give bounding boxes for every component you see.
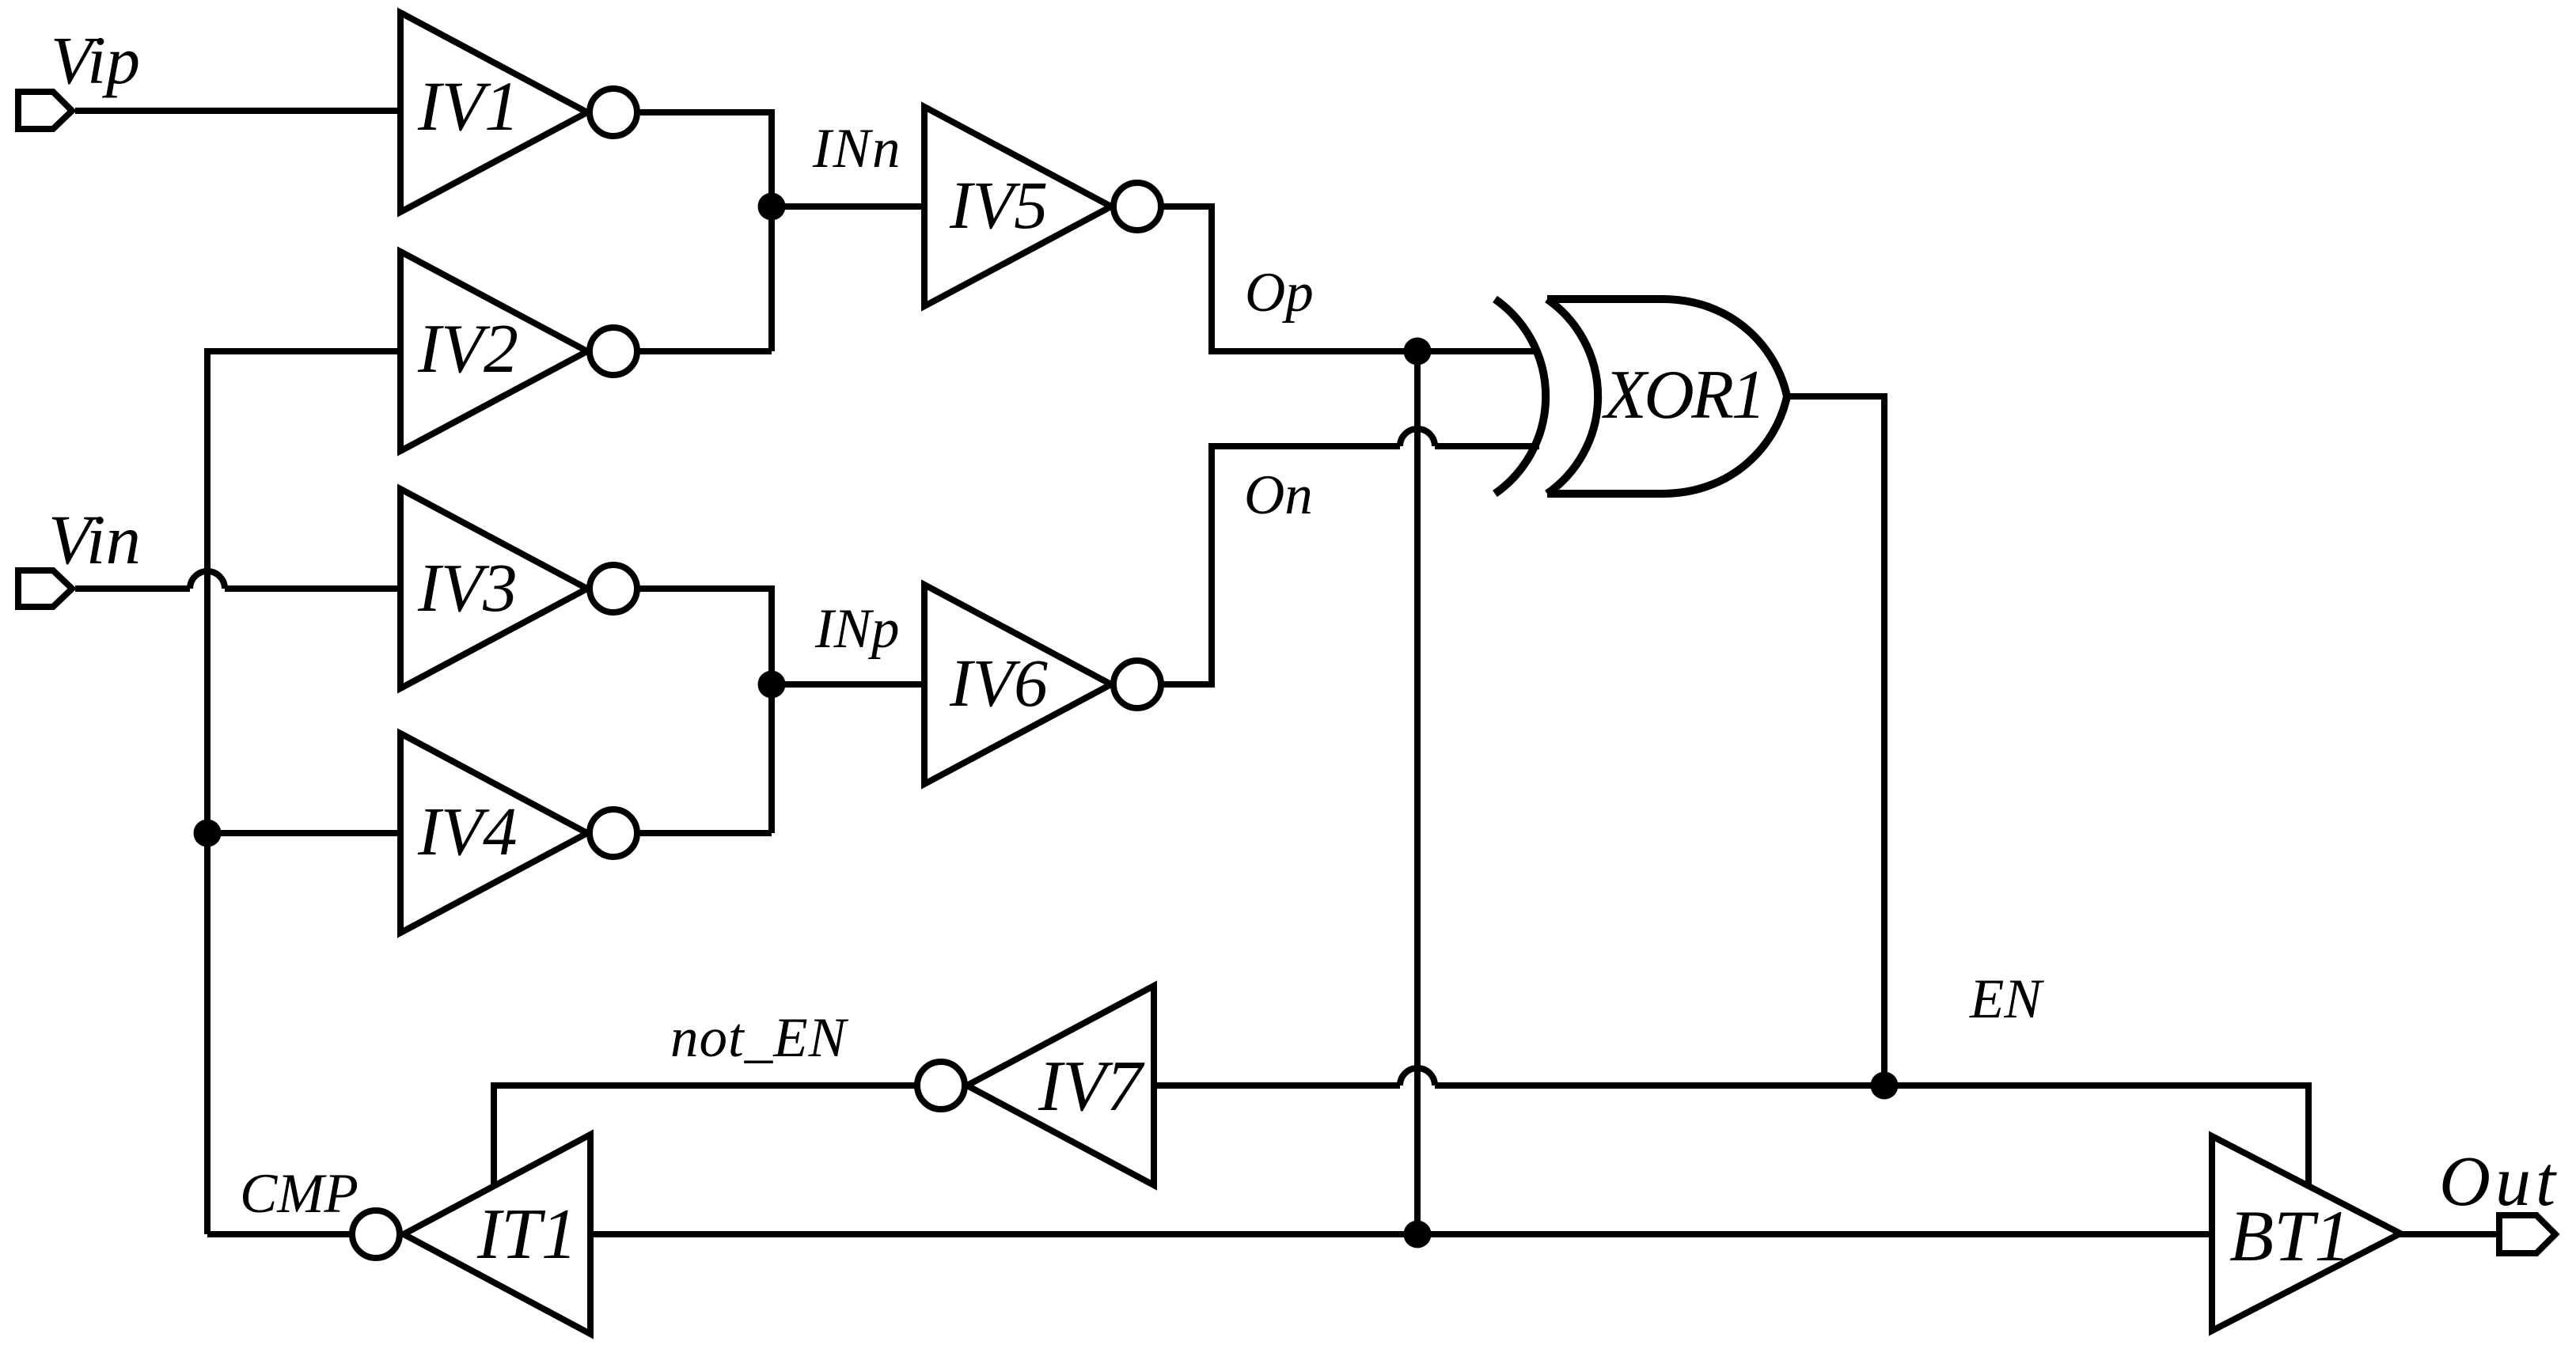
svg-text:CMP: CMP	[240, 1163, 359, 1225]
inverter IV6	[924, 585, 1111, 784]
svg-text:IV3: IV3	[417, 549, 518, 626]
wire Vin continues to IV3	[225, 585, 400, 592]
node INp junction dot	[758, 671, 786, 699]
wire IV4 out	[639, 830, 772, 836]
bubble IV7	[917, 1062, 965, 1109]
buffer BT1	[2212, 1136, 2400, 1331]
svg-text:XOR1: XOR1	[1602, 357, 1763, 434]
inverter IV7 pointing left	[967, 986, 1154, 1185]
bubble IV5	[1113, 183, 1161, 230]
bubble IV2	[590, 328, 637, 375]
svg-text:EN: EN	[1969, 968, 2044, 1030]
wire INn to IV5	[772, 203, 924, 210]
inverter IV3	[400, 489, 587, 688]
xor gate XOR1 body	[1547, 299, 1787, 494]
wire On to XOR	[1435, 443, 1539, 449]
wire EN continues to BT1 enable	[1435, 1085, 2309, 1188]
pin Vip	[18, 92, 72, 129]
node INn junction dot	[758, 193, 786, 221]
wire EN from IV7 input with hop	[1154, 1082, 1400, 1089]
wire CMP from IT1 out	[207, 1231, 352, 1237]
svg-text:IV1: IV1	[417, 68, 520, 146]
wire IV6 out to On with hop	[1163, 446, 1400, 684]
bubble IV6	[1113, 661, 1161, 708]
svg-text:IV6: IV6	[949, 645, 1048, 721]
node Op junction dot	[1404, 338, 1432, 366]
svg-text:IV7: IV7	[1038, 1046, 1145, 1126]
wire IV1 out to junction column	[639, 112, 772, 351]
svg-text:IT1: IT1	[476, 1194, 577, 1274]
wire hop On over vertical	[1400, 429, 1435, 446]
svg-text:INp: INp	[814, 598, 900, 660]
wire IV2 out	[639, 348, 772, 354]
pin Out	[2499, 1215, 2555, 1253]
wire hop EN over Op column	[1400, 1068, 1435, 1085]
svg-text:Vip: Vip	[51, 22, 140, 98]
svg-text:Op: Op	[1245, 262, 1314, 324]
bubble IV4	[590, 809, 637, 857]
svg-text:INn: INn	[812, 118, 902, 180]
svg-text:IV4: IV4	[417, 793, 518, 870]
wire INp to IV6	[772, 681, 924, 688]
wire Vip to IV1	[75, 108, 400, 114]
wire Vin to IV3 with hop	[75, 585, 190, 592]
svg-text:IV2: IV2	[417, 311, 518, 388]
svg-text:Vin: Vin	[48, 502, 141, 579]
inverter IV1	[400, 13, 587, 212]
wire IV2 input from CMP column	[207, 351, 400, 1234]
pin Vin	[18, 570, 72, 607]
svg-text:On: On	[1244, 464, 1313, 526]
wire IV3 out to junction column	[639, 589, 772, 833]
inverter IV4	[400, 733, 587, 933]
wire hop Vin over CMP vertical	[190, 571, 225, 589]
wire bottom Out net IT1 input to BT1 input	[590, 1231, 2211, 1237]
svg-text:IV5: IV5	[949, 167, 1048, 243]
inverter IV2	[400, 252, 587, 451]
inverter IT1 pointing left	[404, 1135, 590, 1334]
node IV4 input junction dot	[194, 820, 222, 847]
node bottom junction dot	[1404, 1221, 1432, 1248]
inverter IV5	[924, 107, 1111, 306]
wire IV5 out to Op	[1163, 206, 1539, 351]
wire XOR1 out, EN vertical	[1787, 396, 1884, 1085]
xor gate XOR1 input arc outer	[1495, 299, 1546, 494]
wire IV4 input	[207, 830, 400, 836]
svg-text:BT1: BT1	[2229, 1195, 2350, 1276]
wire BT1 out to pin	[2398, 1231, 2501, 1237]
wire not_EN from IV7 out	[494, 1085, 915, 1186]
svg-text:Out: Out	[2439, 1142, 2560, 1221]
bubble IV1	[590, 89, 637, 136]
bubble IV3	[590, 565, 637, 612]
node EN junction dot	[1871, 1072, 1899, 1100]
bubble IT1	[352, 1210, 400, 1258]
wire vertical Op column down to output wire	[1414, 351, 1421, 1234]
svg-text:not_EN: not_EN	[670, 1007, 849, 1069]
